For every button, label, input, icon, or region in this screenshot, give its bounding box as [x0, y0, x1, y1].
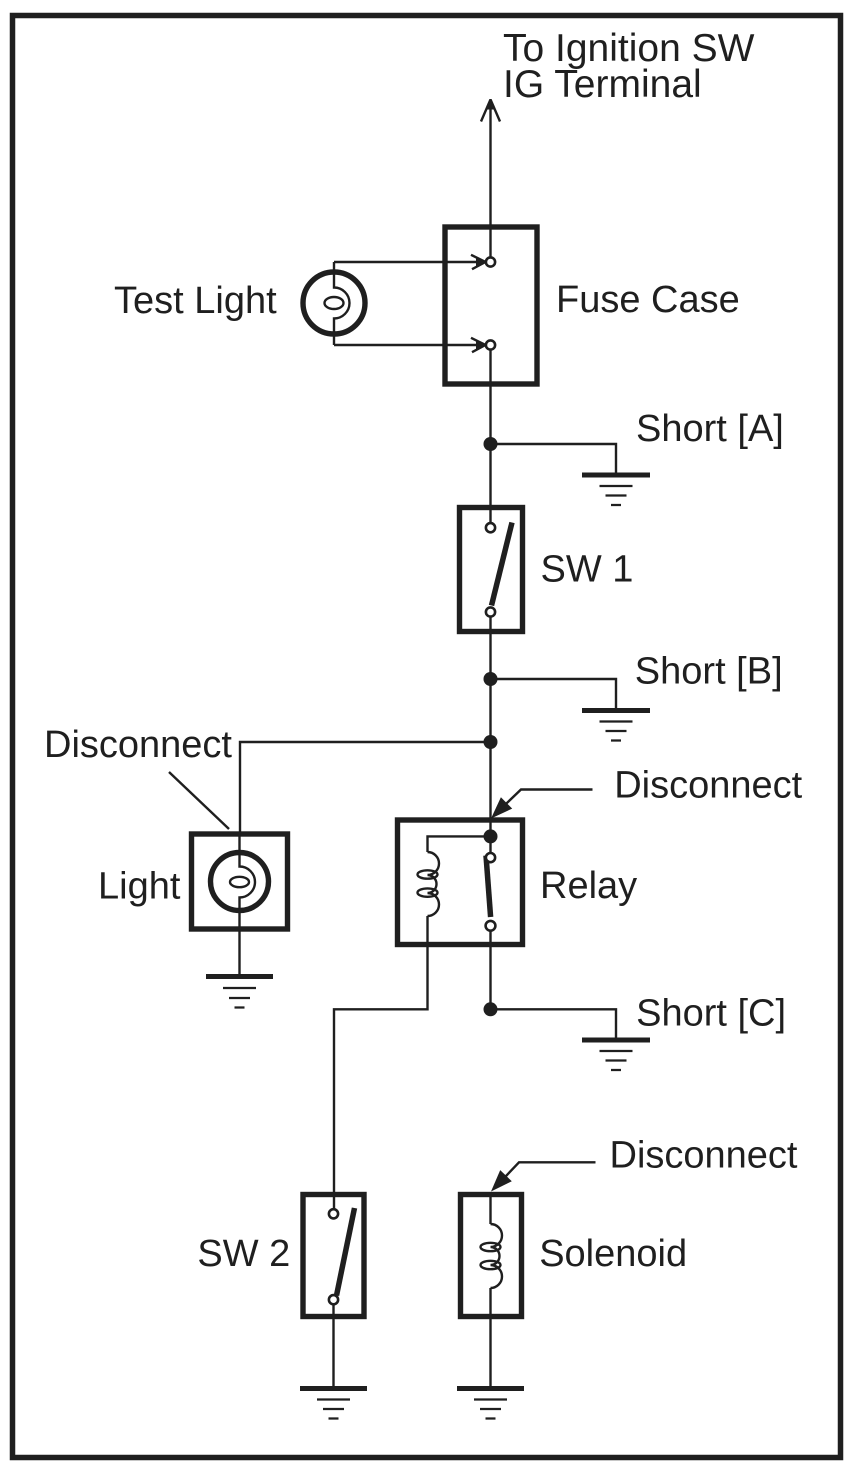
- svg-text:Fuse Case: Fuse Case: [556, 279, 740, 321]
- svg-text:IG Terminal: IG Terminal: [503, 63, 702, 106]
- svg-text:Light: Light: [98, 865, 181, 907]
- svg-text:Relay: Relay: [540, 865, 637, 907]
- svg-text:Disconnect: Disconnect: [44, 724, 232, 766]
- svg-text:Disconnect: Disconnect: [614, 765, 802, 807]
- svg-text:Short [C]: Short [C]: [636, 993, 786, 1035]
- svg-text:SW 1: SW 1: [541, 549, 634, 591]
- svg-text:Test Light: Test Light: [114, 280, 277, 322]
- svg-text:Short [B]: Short [B]: [635, 651, 783, 693]
- svg-text:Solenoid: Solenoid: [539, 1233, 687, 1275]
- svg-text:Disconnect: Disconnect: [610, 1135, 798, 1177]
- svg-text:SW 2: SW 2: [197, 1233, 290, 1275]
- svg-text:Short [A]: Short [A]: [636, 408, 784, 450]
